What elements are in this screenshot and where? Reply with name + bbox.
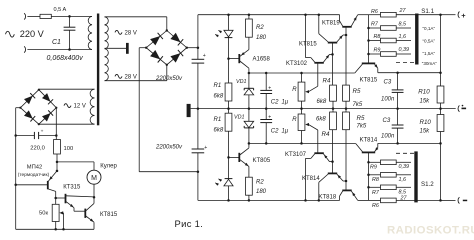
svg-text:220 V: 220 V xyxy=(20,29,45,39)
label S1.1 xyxy=(421,8,434,15)
transistor KT805 emitter xyxy=(240,160,249,178)
svg-text:R2: R2 xyxy=(256,25,264,31)
label KT805 xyxy=(253,158,271,164)
label термодатчик xyxy=(18,172,50,178)
wire fan AC2 xyxy=(39,123,95,125)
fan bridge diode lower-left xyxy=(24,110,35,121)
label + lower cap xyxy=(204,145,207,151)
label KT815 driver xyxy=(299,41,317,47)
transistor KT814 sense emitter xyxy=(375,143,379,151)
center tap terminal bar xyxy=(126,43,129,54)
svg-text:R7: R7 xyxy=(372,190,380,196)
label 30mA xyxy=(422,61,438,66)
label R10 bottom xyxy=(420,119,432,126)
label 220,0 xyxy=(30,145,45,151)
svg-text:15k: 15k xyxy=(420,129,431,135)
svg-text:R8: R8 xyxy=(374,34,381,40)
label KT819 xyxy=(322,21,340,27)
node junction xyxy=(248,72,251,75)
LED HL2 arrows xyxy=(215,179,222,186)
resistor R1 bottom xyxy=(225,113,232,131)
svg-text:VD1: VD1 xyxy=(234,115,245,121)
resistor R8 bottom xyxy=(381,173,397,178)
svg-text:R1: R1 xyxy=(214,117,222,123)
svg-text:R: R xyxy=(292,117,297,123)
fan bridge node bottom xyxy=(38,123,40,125)
label 7k5 top xyxy=(353,102,363,108)
label KT815 fan xyxy=(100,212,118,218)
label 2200x50v lower xyxy=(155,144,183,150)
label minus xyxy=(463,200,467,202)
node junction xyxy=(56,170,59,173)
wire xyxy=(228,186,230,201)
svg-text:R6: R6 xyxy=(371,9,378,15)
node junction xyxy=(197,107,200,110)
wire R9 row xyxy=(369,53,381,55)
wire xyxy=(345,27,347,35)
node junction xyxy=(439,199,442,202)
label R9 bottom xyxy=(370,165,377,171)
wire xyxy=(228,59,230,83)
node junction xyxy=(300,142,303,145)
wire xyxy=(301,131,303,144)
transistor KT815 sense emitter xyxy=(374,64,378,73)
node junction xyxy=(367,39,370,42)
label C2 top xyxy=(271,99,279,105)
wire mid rail xyxy=(191,108,456,110)
label 0,39 xyxy=(399,47,410,53)
node junction xyxy=(345,180,348,183)
mid rail terminal bar xyxy=(187,104,191,117)
svg-text:+: + xyxy=(461,11,466,20)
svg-text:R9: R9 xyxy=(370,165,377,171)
node junction xyxy=(367,53,370,56)
node junction xyxy=(331,53,334,56)
svg-text:28 V: 28 V xyxy=(125,74,137,80)
capacitor C1 xyxy=(64,16,76,49)
label 27 top xyxy=(399,8,407,14)
capacitor C2 bottom xyxy=(260,109,272,144)
label 1,6 xyxy=(399,34,407,40)
node junction mid rail xyxy=(332,107,335,110)
bridge rectifier frame xyxy=(146,31,187,65)
node junction mid rail xyxy=(248,107,251,110)
svg-text:KT815: KT815 xyxy=(299,41,317,47)
node junction xyxy=(197,170,200,173)
fan bridge node top xyxy=(38,89,40,91)
node junction top rail xyxy=(304,13,307,16)
svg-text:KT3102: KT3102 xyxy=(286,61,308,67)
label 8,5 xyxy=(399,22,407,28)
label 1u bottom xyxy=(282,129,289,135)
label common terminal xyxy=(462,105,467,109)
label R9 top xyxy=(374,48,381,54)
label ~ 28 V lower xyxy=(115,74,137,80)
wire xyxy=(301,101,303,109)
potentiometer R bottom wiper xyxy=(305,123,318,153)
label 27 bottom xyxy=(400,195,408,201)
svg-text:12 V: 12 V xyxy=(74,104,86,110)
svg-text:КТ315: КТ315 xyxy=(63,185,81,191)
wire fan minus xyxy=(16,108,21,230)
resistor R5 top xyxy=(343,85,350,101)
label R10 top xyxy=(418,88,430,95)
wire xyxy=(56,154,58,171)
node junction xyxy=(439,13,442,16)
resistor R9 bottom xyxy=(381,160,397,165)
transformer T1 primary winding xyxy=(88,16,92,49)
svg-text:C1: C1 xyxy=(52,39,61,46)
wire bridge plus xyxy=(187,47,198,49)
node junction bottom rail xyxy=(304,199,307,202)
resistor R5 bottom xyxy=(343,112,350,130)
wire xyxy=(396,199,440,201)
label C3 bottom xyxy=(383,118,391,124)
transistor KT814 sense collector xyxy=(356,144,363,152)
transistor KT819 emitter xyxy=(351,15,357,26)
node junction xyxy=(367,174,370,177)
wire xyxy=(197,153,199,201)
svg-text:KT814: KT814 xyxy=(360,138,378,144)
wire xyxy=(345,109,347,112)
caption Рис 1. xyxy=(175,218,204,229)
transformer secondary 28V winding xyxy=(105,17,109,81)
wire 30mA row dashed xyxy=(396,62,414,64)
svg-text:0,5 A: 0,5 A xyxy=(54,7,67,13)
node junction mid rail xyxy=(300,107,303,110)
transistor KT814 collector xyxy=(319,174,328,200)
svg-text:КТ815: КТ815 xyxy=(100,212,118,218)
wire top rail xyxy=(198,14,340,16)
svg-text:Кулер: Кулер xyxy=(100,163,117,169)
transistor A1658 collector xyxy=(240,61,249,73)
capacitor C 2200x50v lower xyxy=(192,149,205,153)
resistor R6 top xyxy=(381,12,397,17)
label R8 top xyxy=(374,34,381,40)
wire reference node bottom xyxy=(249,142,356,144)
resistor R7 top xyxy=(381,26,397,31)
transistor KT818 collector xyxy=(340,191,343,200)
node junction xyxy=(439,142,442,145)
transistor VT KT819 base bar xyxy=(342,26,351,28)
svg-text:R2: R2 xyxy=(256,179,264,185)
wire xyxy=(27,15,40,17)
label 1u top xyxy=(282,99,289,105)
wire KT814 sense base xyxy=(368,153,370,163)
svg-text:“0,5A”: “0,5A” xyxy=(423,39,436,44)
transformer 12V winding xyxy=(90,89,94,124)
wire xyxy=(228,131,230,157)
switch S1.2 bar xyxy=(414,151,417,202)
label R1 bottom xyxy=(214,117,222,123)
svg-text:R: R xyxy=(292,87,297,93)
wire xyxy=(396,53,411,55)
label 0,1A xyxy=(423,26,436,31)
svg-text:6k8: 6k8 xyxy=(316,117,326,123)
switch S1.1 bar xyxy=(415,14,418,65)
svg-text:VD1: VD1 xyxy=(236,79,247,85)
transistor KT815 collector xyxy=(319,15,328,42)
svg-text:C3: C3 xyxy=(383,118,391,124)
wire AC2 to bridge bottom xyxy=(105,65,167,81)
fan bridge node right xyxy=(55,107,57,109)
wire xyxy=(396,174,411,176)
bridge node top xyxy=(166,29,168,31)
wire xyxy=(332,43,334,55)
node junction xyxy=(62,228,65,231)
transistor MP42 collector xyxy=(48,189,55,204)
node junction xyxy=(345,34,348,37)
svg-text:27: 27 xyxy=(399,8,407,14)
wire xyxy=(248,15,250,19)
wire to minus terminal xyxy=(441,199,456,201)
resistor R8 top xyxy=(381,38,397,43)
svg-text:6k8: 6k8 xyxy=(317,99,327,105)
svg-text:1,6: 1,6 xyxy=(399,177,407,183)
node junction xyxy=(331,160,334,163)
svg-text:(термодатчик): (термодатчик) xyxy=(18,172,50,178)
wire fan AC1 xyxy=(39,88,95,91)
label ~ 220 V xyxy=(6,29,45,39)
node junction bottom rail xyxy=(318,199,321,202)
resistor R2 top xyxy=(246,19,253,37)
node junction xyxy=(93,196,96,199)
label R pot top xyxy=(292,87,297,93)
wire R9 row bottom xyxy=(369,161,381,163)
transistor KT815 fan collector xyxy=(86,197,94,211)
label 8,5 bottom xyxy=(399,189,407,195)
label R7 bottom xyxy=(372,190,380,196)
svg-text:KT818: KT818 xyxy=(319,194,337,200)
label 0,068x400v xyxy=(47,55,84,62)
label plus xyxy=(461,11,466,20)
transistor MP42 base bar xyxy=(47,181,49,189)
potentiometer 50k wiper xyxy=(59,211,63,229)
node junction top rail xyxy=(318,13,321,16)
svg-text:“1,5A”: “1,5A” xyxy=(423,51,436,56)
transistor VT KT815 sense base bar xyxy=(362,62,375,64)
node junction xyxy=(68,48,71,51)
motor M cooler xyxy=(87,170,101,184)
bridge diode lower-left xyxy=(150,50,163,63)
wire xyxy=(93,184,95,197)
label KT3107 xyxy=(285,152,307,158)
resistor R10 top xyxy=(437,86,444,103)
svg-text:KT819: KT819 xyxy=(322,21,340,27)
node junction xyxy=(56,161,59,164)
label 100 xyxy=(64,146,74,152)
label MP42 xyxy=(27,165,42,171)
svg-text:C3: C3 xyxy=(384,79,392,85)
label + C2 top xyxy=(268,85,271,91)
label 15k bottom xyxy=(420,129,431,135)
svg-text:R4: R4 xyxy=(323,77,331,84)
label KT815 sense xyxy=(360,77,378,83)
label R1 top xyxy=(214,83,222,89)
transistor KT805 base bar xyxy=(238,153,240,162)
transistor KT815 fan emitter xyxy=(86,216,94,229)
output terminal minus xyxy=(458,197,459,203)
wire R8 row xyxy=(369,40,381,42)
wire xyxy=(55,222,57,230)
node junction xyxy=(265,142,268,145)
wire bottom rail xyxy=(198,199,340,201)
capacitor C3 top xyxy=(392,73,404,109)
wire fan plus xyxy=(55,108,57,140)
node junction mid rail xyxy=(396,107,399,110)
transformer core xyxy=(97,14,99,126)
svg-text:0,39: 0,39 xyxy=(399,164,410,170)
capacitor C 2200x50v upper xyxy=(192,59,205,63)
potentiometer R bottom xyxy=(298,114,305,131)
wire output minus bus xyxy=(440,143,442,200)
label VD1 top xyxy=(236,79,247,85)
wire xyxy=(301,73,303,82)
svg-text:8,5: 8,5 xyxy=(399,189,407,195)
svg-text:50к: 50к xyxy=(39,210,48,216)
node junction xyxy=(68,15,71,18)
transistor KT818 emitter xyxy=(351,191,357,200)
wire shunt bus bottom xyxy=(368,162,370,200)
node junction xyxy=(367,27,370,30)
wire xyxy=(248,195,250,200)
wire R6 row bottom xyxy=(369,199,381,201)
svg-text:R5: R5 xyxy=(353,88,361,95)
label 180 top xyxy=(256,35,267,41)
wire reference node top xyxy=(249,72,355,74)
wire R8 row bottom xyxy=(369,174,381,176)
svg-text:Рис 1.: Рис 1. xyxy=(175,218,204,229)
fuse FU1 0,5A xyxy=(40,14,51,18)
svg-text:A1658: A1658 xyxy=(253,56,271,62)
node junction xyxy=(14,134,17,137)
potentiometer R top wiper xyxy=(305,63,318,93)
wire xyxy=(332,109,334,112)
label 15k top xyxy=(420,98,431,104)
label 0,5 A xyxy=(54,7,67,13)
LED HL1 arrows xyxy=(215,30,222,37)
node junction bottom rail xyxy=(227,199,230,202)
node junction xyxy=(300,72,303,75)
bridge node bottom xyxy=(166,64,168,66)
label + 220,0 xyxy=(41,129,44,134)
transistor KT315 collector xyxy=(66,196,94,197)
transistor KT3107 collector xyxy=(306,154,315,201)
resistor R9 top xyxy=(381,52,397,57)
wire xyxy=(228,109,230,114)
label ~ 28 V upper xyxy=(115,30,137,36)
svg-text:1,6: 1,6 xyxy=(399,34,407,40)
svg-text:220,0: 220,0 xyxy=(30,145,45,151)
svg-text:R7: R7 xyxy=(371,22,379,28)
bridge node left xyxy=(145,47,147,49)
svg-text:0,39: 0,39 xyxy=(399,47,410,53)
label R2 bottom xyxy=(256,179,264,185)
wire xyxy=(332,54,334,85)
svg-text:100n: 100n xyxy=(381,133,395,139)
svg-text:RADIOSKOT.RU: RADIOSKOT.RU xyxy=(387,224,474,236)
transistor MP42 base wire xyxy=(16,184,48,186)
node junction top rail xyxy=(248,13,251,16)
wire R7 row bottom xyxy=(369,186,381,188)
wire xyxy=(197,63,199,149)
transistor A1658 emitter xyxy=(240,37,249,56)
fan bridge diode upper-left xyxy=(24,93,35,104)
bridge node right xyxy=(186,47,188,49)
wire KT815 sense base xyxy=(368,54,370,63)
svg-text:6k8: 6k8 xyxy=(214,128,224,134)
svg-text:МП42: МП42 xyxy=(27,165,42,171)
fan bridge rectifier frame xyxy=(20,90,56,125)
wire xyxy=(396,14,440,16)
wire emitter line bottom xyxy=(358,199,369,201)
node junction xyxy=(197,46,200,49)
svg-text:6k8: 6k8 xyxy=(214,94,224,100)
transistor U1 A1658 base wire xyxy=(229,58,240,60)
node junction xyxy=(265,72,268,75)
svg-text:S1.1: S1.1 xyxy=(421,8,434,15)
svg-text:180: 180 xyxy=(256,35,267,41)
svg-text:8,5: 8,5 xyxy=(399,22,407,28)
label 7k5 bottom xyxy=(357,124,367,130)
wire xyxy=(332,101,334,108)
transistor KT805 collector xyxy=(240,143,249,155)
resistor R6 bottom xyxy=(381,198,397,203)
svg-text:180: 180 xyxy=(256,189,267,195)
svg-text:R10: R10 xyxy=(418,88,430,95)
zener diode VD1 bottom xyxy=(244,109,254,144)
wire xyxy=(396,27,411,29)
label KT818 xyxy=(319,194,337,200)
transistor KT3102 collector xyxy=(306,15,315,63)
transistor KT3107 emitter xyxy=(323,154,332,162)
svg-text:100: 100 xyxy=(64,146,74,152)
transistor KT3102 emitter xyxy=(323,54,332,62)
transistor KT315 emitter xyxy=(66,202,85,212)
label 0,39 bottom xyxy=(399,164,410,170)
label ~ 12 V xyxy=(64,104,86,110)
label 100n top xyxy=(381,96,395,102)
transistor VT KT814 sense base bar xyxy=(362,151,375,153)
svg-text:0,068x400v: 0,068x400v xyxy=(47,55,84,62)
wire sense line bottom xyxy=(378,142,441,144)
label KT3102 xyxy=(286,61,308,67)
node junction xyxy=(396,71,399,74)
bridge diode lower-right xyxy=(170,50,183,63)
transistor VT KT814 base bar xyxy=(328,172,337,174)
wire to plus terminal xyxy=(441,14,456,16)
svg-text:R4: R4 xyxy=(322,131,330,138)
wire sense line top xyxy=(378,72,441,74)
label R7 top xyxy=(371,22,379,28)
wire 30mA row dashed bottom xyxy=(396,152,414,154)
wire xyxy=(396,40,411,42)
svg-text:R9: R9 xyxy=(374,48,381,54)
label R5 bottom xyxy=(357,115,365,122)
label 6k8 R4 bottom xyxy=(316,117,326,123)
resistor R7 bottom xyxy=(381,185,397,190)
wire xyxy=(332,162,334,174)
label R pot bottom xyxy=(292,117,297,123)
wire center tap xyxy=(105,47,127,49)
resistor R4 bottom xyxy=(330,112,337,130)
fan bridge node left xyxy=(19,107,21,109)
svg-text:+: + xyxy=(203,53,206,59)
LED HL1 xyxy=(224,30,233,58)
wire xyxy=(27,49,92,51)
node junction xyxy=(367,186,370,189)
label C1 xyxy=(52,39,61,46)
